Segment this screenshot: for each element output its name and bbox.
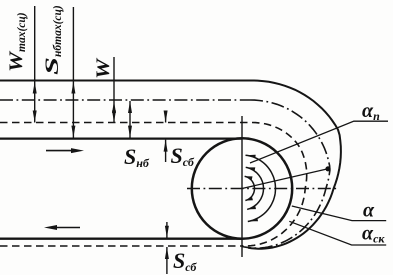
leader to alpha label	[292, 206, 386, 221]
dimension W_max(sc): extension + double arrow	[34, 6, 36, 82]
tension spiral, dashed (S_sb level)	[242, 123, 307, 246]
belt motion arrow left (bottom run)	[52, 227, 80, 229]
wire: top max-tension line S_nb_max level	[0, 80, 252, 82]
angle arc alpha (large) with arrows	[246, 155, 276, 221]
wire: top actual-tension dash-dot line S_nb level	[0, 99, 250, 101]
angle arc alpha_p (small) with arrows	[245, 176, 255, 200]
tension spiral, outer solid (max)	[248, 81, 341, 249]
dimension S_nb_max(sc): extension + double arrow	[72, 7, 74, 82]
svg-text:W: W	[93, 58, 114, 79]
tension spiral, dash-dot (actual)	[242, 100, 330, 248]
node: slip-start dot on dash-dot spiral	[325, 166, 330, 171]
wire: top belt line (carrying run)	[0, 137, 242, 139]
dimension S_sb top (outside arrows)	[165, 111, 167, 123]
dimension S_nb double arrow	[129, 101, 131, 138]
angle arc alpha_sk (middle) with arrows	[246, 167, 264, 209]
leader to alpha_sk label	[289, 221, 386, 245]
dimension S_sb bottom (outside arrows)	[166, 222, 168, 238]
dimension W: extension + double arrow	[113, 57, 115, 101]
svg-text:α: α	[363, 200, 375, 222]
drive drum circle	[192, 138, 292, 238]
wire: top S_sb level dashed line	[0, 122, 252, 124]
drum horizontal dash-dot axis	[187, 188, 338, 190]
radial line from drum centre to slip-start point	[242, 169, 328, 189]
wire: bottom S_sb dashed line	[0, 245, 242, 247]
leader to alpha_p label	[250, 121, 388, 163]
belt motion arrow right (top run)	[46, 150, 76, 152]
drum vertical centerline	[241, 116, 243, 257]
wire: bottom belt line (return run)	[0, 238, 242, 240]
